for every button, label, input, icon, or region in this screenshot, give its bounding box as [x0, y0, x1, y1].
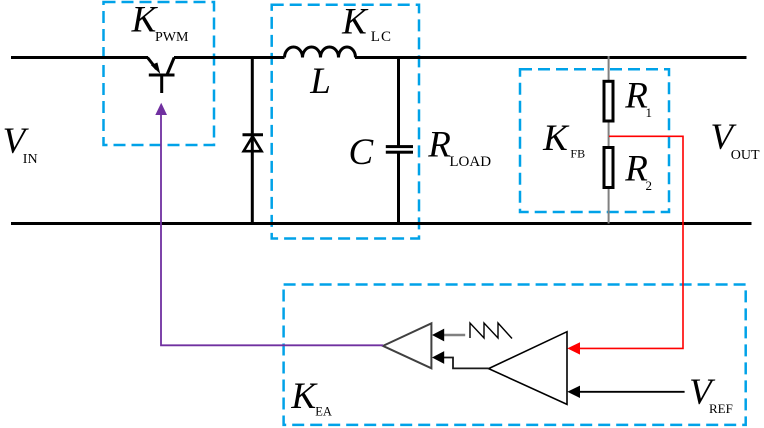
- svg-text:R: R: [427, 125, 451, 166]
- wire purple control path comparator to transistor: [161, 109, 383, 345]
- wire capacitor branch upper: [397, 56, 400, 146]
- resistor R2: [604, 148, 613, 188]
- wire diode branch vertical: [251, 56, 254, 224]
- svg-text:1: 1: [646, 105, 653, 120]
- capacitor C plates: [386, 145, 413, 154]
- svg-text:PWM: PWM: [155, 30, 189, 45]
- svg-text:K: K: [290, 376, 318, 417]
- arrowhead purple into transistor base: [155, 103, 167, 115]
- dashed block K_PWM box: [104, 2, 215, 145]
- svg-text:EA: EA: [315, 404, 332, 418]
- wire capacitor branch lower: [397, 153, 400, 225]
- wire top rail left segment (VIN to transistor): [11, 56, 148, 59]
- arrowhead red into error amp: [567, 342, 580, 354]
- arrowhead sawtooth input into comparator: [432, 329, 444, 342]
- svg-text:R: R: [624, 76, 648, 117]
- op-amp U2 error amplifier: [489, 332, 567, 405]
- inductor L: [285, 47, 356, 58]
- transistor Q1 (PWM switch): [148, 58, 175, 94]
- wire feedback red path from divider tap to error amp: [578, 136, 683, 348]
- svg-text:OUT: OUT: [731, 148, 760, 163]
- arrowhead VREF into error amp: [567, 386, 580, 398]
- svg-text:FB: FB: [570, 146, 585, 160]
- diode D1: [243, 135, 264, 151]
- sawtooth ramp symbol: [470, 323, 512, 339]
- wire feedback divider vertical (grey): [608, 56, 610, 224]
- dashed block K_LC box: [272, 5, 419, 239]
- svg-text:IN: IN: [23, 152, 38, 167]
- svg-text:K: K: [542, 118, 570, 159]
- wire top rail middle segment (transistor to inductor): [174, 56, 285, 59]
- wire bottom rail: [11, 222, 752, 225]
- dashed block K_FB box: [520, 69, 669, 212]
- svg-text:K: K: [341, 2, 369, 43]
- wire error amp output to comparator input (step): [444, 358, 489, 369]
- svg-text:REF: REF: [709, 401, 733, 416]
- arrowhead error amp output into comparator: [432, 351, 444, 364]
- wire VREF input: [580, 391, 685, 393]
- svg-text:2: 2: [646, 178, 653, 193]
- resistor R1: [604, 81, 613, 121]
- svg-text:L: L: [309, 61, 331, 102]
- svg-text:R: R: [624, 149, 648, 190]
- dashed block K_EA box: [284, 285, 746, 425]
- svg-text:C: C: [349, 132, 375, 173]
- op-amp U1 comparator: [383, 323, 431, 368]
- wire sawtooth input line (grey): [444, 334, 466, 336]
- wire top rail right segment (inductor to VOUT): [355, 56, 747, 59]
- svg-text:LC: LC: [371, 29, 392, 45]
- svg-text:LOAD: LOAD: [449, 154, 491, 170]
